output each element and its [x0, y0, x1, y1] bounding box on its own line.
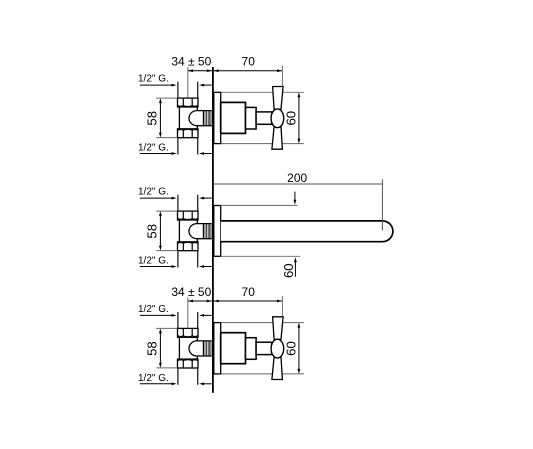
spout 60 dim lower arrow	[294, 257, 297, 277]
spout 60 dim extension lines	[221, 205, 301, 256]
dimension 200 extension line at spout end	[381, 179, 383, 230]
wall section line	[212, 67, 214, 393]
spout 60 dim upper arrow	[294, 192, 297, 205]
dimension text 60 (spout)	[281, 263, 296, 278]
top valve assembly (front parts and dims)	[171, 55, 304, 150]
top valve assembly (behind-wall body)	[138, 74, 212, 155]
dimension 200 line	[214, 183, 383, 185]
wall spout	[221, 221, 393, 242]
middle valve assembly (behind-wall body)	[138, 187, 212, 268]
svg-text:60: 60	[281, 263, 296, 278]
svg-text:200: 200	[287, 171, 307, 185]
middle spout escutcheon	[214, 206, 221, 257]
bottom valve assembly (front parts and dims)	[171, 285, 304, 380]
bottom valve assembly (behind-wall body)	[138, 304, 212, 385]
